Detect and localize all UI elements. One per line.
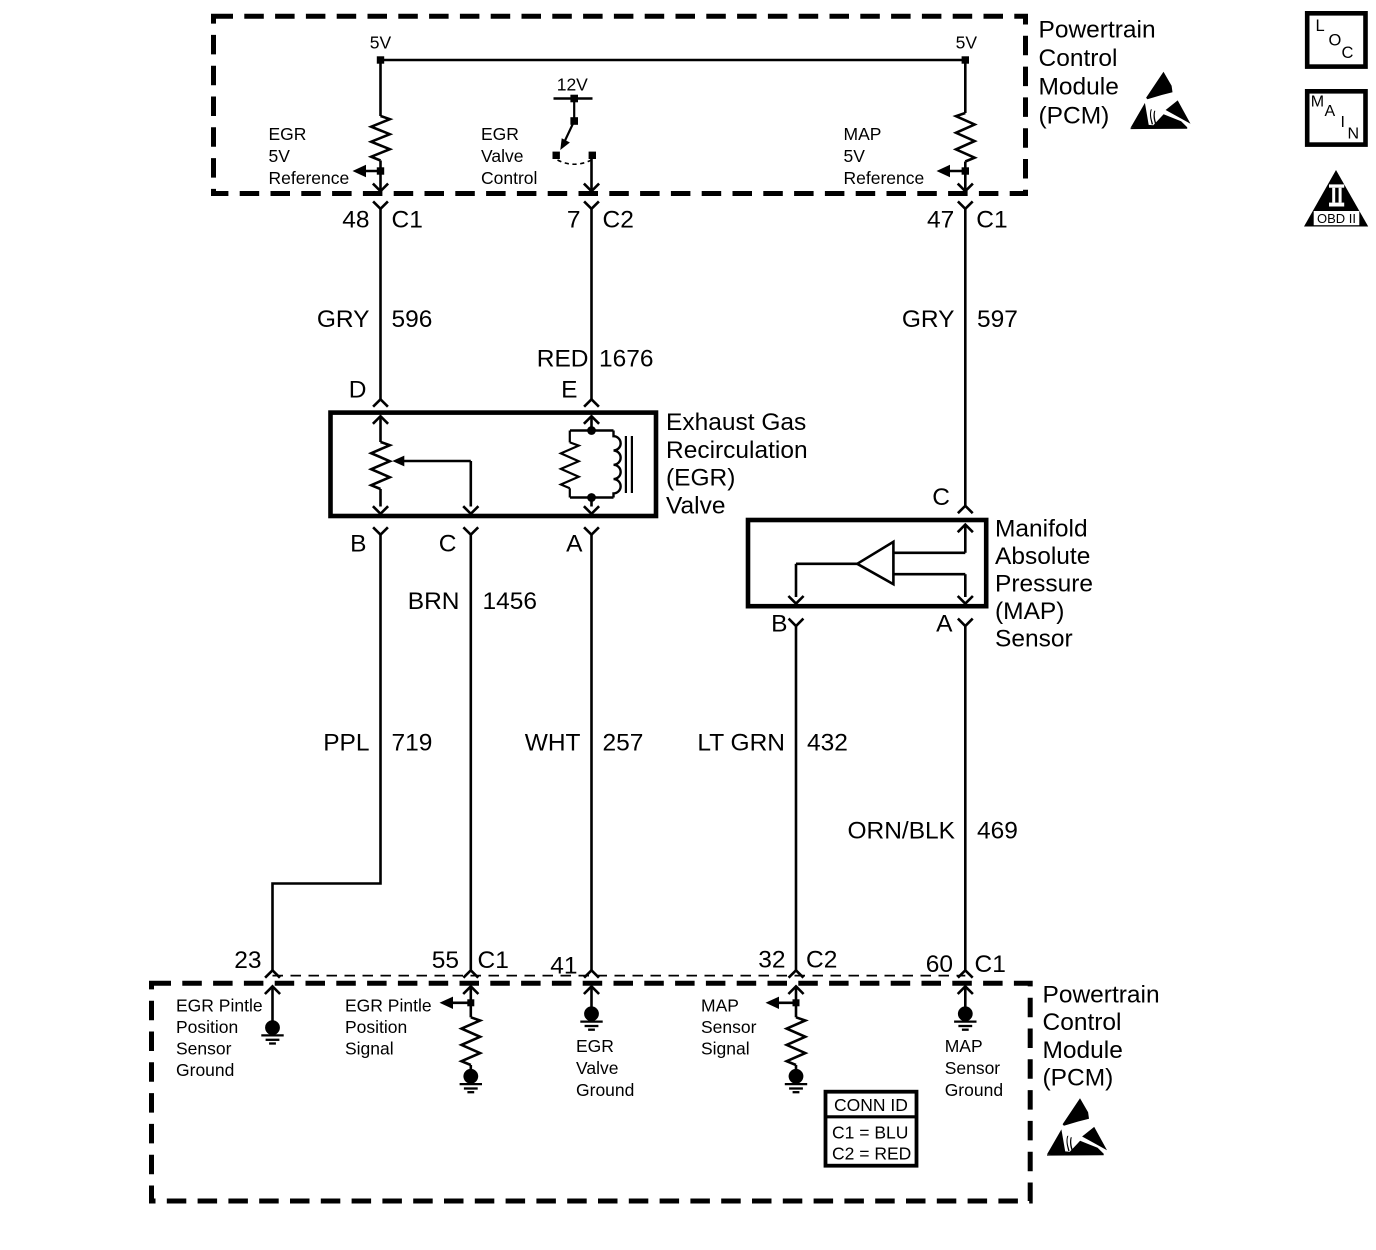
svg-text:469: 469 [977,818,1018,845]
svg-text:EGR: EGR [576,1036,614,1056]
svg-text:EGR: EGR [481,124,519,144]
svg-text:WHT: WHT [525,730,581,757]
svg-text:Signal: Signal [345,1039,394,1059]
svg-text:Exhaust Gas: Exhaust Gas [666,409,806,436]
svg-text:MAP: MAP [701,995,739,1015]
svg-text:5V: 5V [370,33,392,53]
svg-text:Valve: Valve [666,492,725,519]
svg-text:MAP: MAP [844,124,882,144]
svg-text:597: 597 [977,306,1018,333]
svg-text:C2: C2 [806,947,837,974]
svg-text:41: 41 [550,953,577,980]
svg-text:1676: 1676 [599,346,654,373]
svg-text:A: A [1325,103,1336,120]
svg-text:EGR Pintle: EGR Pintle [176,995,263,1015]
svg-text:GRY: GRY [902,306,955,333]
svg-text:E: E [561,377,577,404]
svg-text:1456: 1456 [483,588,538,615]
svg-text:PPL: PPL [323,730,369,757]
svg-text:Ground: Ground [576,1080,634,1100]
svg-text:Module: Module [1043,1037,1123,1064]
svg-text:GRY: GRY [317,306,370,333]
svg-text:C: C [932,484,950,511]
svg-text:Control: Control [481,168,537,188]
svg-text:EGR: EGR [269,124,307,144]
svg-text:Module: Module [1039,74,1119,101]
svg-text:(MAP): (MAP) [995,598,1064,625]
svg-text:60: 60 [926,951,953,978]
svg-text:596: 596 [392,306,433,333]
svg-text:N: N [1348,125,1360,142]
svg-text:257: 257 [603,730,644,757]
svg-text:C1: C1 [975,951,1006,978]
svg-text:Absolute: Absolute [995,543,1090,570]
svg-text:Powertrain: Powertrain [1039,17,1156,44]
svg-text:C1: C1 [478,947,509,974]
svg-text:55: 55 [432,947,459,974]
svg-text:Ground: Ground [176,1060,234,1080]
svg-text:Pressure: Pressure [995,571,1093,598]
svg-text:(PCM): (PCM) [1043,1065,1114,1092]
svg-text:MAP: MAP [945,1036,983,1056]
svg-text:D: D [349,377,367,404]
svg-text:(EGR): (EGR) [666,465,735,492]
svg-text:5V: 5V [269,146,291,166]
svg-text:B: B [350,531,366,558]
svg-text:5V: 5V [956,33,978,53]
svg-text:C: C [1342,44,1354,62]
svg-text:(PCM): (PCM) [1039,102,1110,129]
svg-text:C1: C1 [976,207,1007,234]
svg-text:Sensor: Sensor [701,1017,757,1037]
svg-text:5V: 5V [844,146,866,166]
svg-text:Control: Control [1039,45,1118,72]
svg-text:C1: C1 [392,207,423,234]
svg-text:32: 32 [758,947,785,974]
svg-text:Position: Position [345,1017,407,1037]
svg-text:RED: RED [537,346,589,373]
svg-text:Reference: Reference [269,168,350,188]
svg-text:L: L [1316,17,1325,35]
svg-text:C2: C2 [603,207,634,234]
svg-text:A: A [936,611,953,638]
svg-text:B: B [771,611,787,638]
svg-text:Sensor: Sensor [176,1039,232,1059]
svg-text:Sensor: Sensor [945,1058,1001,1078]
svg-text:Reference: Reference [844,168,925,188]
svg-text:7: 7 [567,207,581,234]
svg-text:Ground: Ground [945,1080,1003,1100]
svg-text:Manifold: Manifold [995,515,1088,542]
svg-text:Sensor: Sensor [995,626,1073,653]
svg-text:C: C [439,531,457,558]
svg-text:Valve: Valve [481,146,523,166]
svg-text:Valve: Valve [576,1058,618,1078]
svg-text:LT GRN: LT GRN [697,730,785,757]
svg-text:Powertrain: Powertrain [1043,981,1160,1008]
svg-text:23: 23 [234,947,261,974]
svg-text:432: 432 [807,730,848,757]
svg-text:48: 48 [342,207,369,234]
svg-text:O: O [1329,31,1342,49]
svg-text:ORN/BLK: ORN/BLK [847,818,955,845]
svg-text:EGR Pintle: EGR Pintle [345,995,432,1015]
svg-text:C2 = RED: C2 = RED [832,1144,911,1164]
svg-text:47: 47 [927,207,954,234]
svg-text:C1 = BLU: C1 = BLU [832,1122,908,1142]
svg-text:M: M [1311,94,1324,111]
svg-text:12V: 12V [557,75,588,95]
svg-text:A: A [566,531,583,558]
svg-text:Position: Position [176,1017,238,1037]
svg-text:Recirculation: Recirculation [666,437,808,464]
svg-text:OBD II: OBD II [1317,211,1356,226]
svg-text:CONN ID: CONN ID [834,1095,908,1115]
svg-text:I: I [1341,114,1345,131]
svg-text:719: 719 [392,730,433,757]
svg-text:BRN: BRN [408,588,460,615]
svg-text:Signal: Signal [701,1039,750,1059]
svg-text:Control: Control [1043,1009,1122,1036]
